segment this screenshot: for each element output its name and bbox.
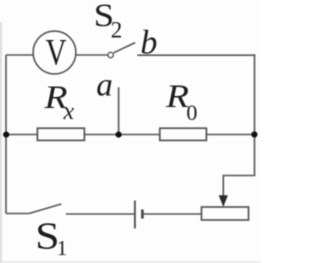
wire Rx to node a junction xyxy=(84,134,159,136)
switch S1 blade xyxy=(29,204,61,214)
voltmeter V circle xyxy=(33,31,76,74)
junction node a xyxy=(116,132,122,138)
wire bottom-left corner to switch S1 xyxy=(6,213,29,215)
svg-text:x: x xyxy=(63,99,75,125)
switch S2 pivot circle xyxy=(108,52,113,57)
switch S2 blade xyxy=(114,43,136,53)
svg-text:0: 0 xyxy=(186,100,197,125)
resistor R0 box xyxy=(160,128,207,140)
wire battery to rheostat xyxy=(142,213,201,215)
rheostat box xyxy=(202,207,249,220)
svg-text:2: 2 xyxy=(111,18,123,43)
wire left rail xyxy=(5,55,7,214)
junction node right xyxy=(251,131,257,137)
battery long plate xyxy=(134,201,136,229)
battery short plate xyxy=(141,210,144,219)
wire step to rheostat arrow xyxy=(223,176,255,197)
resistor Rx box xyxy=(37,128,84,140)
wire middle row left xyxy=(6,134,37,136)
svg-text:1: 1 xyxy=(57,236,68,260)
scan edge shading left xyxy=(0,22,2,263)
wire right rail xyxy=(254,54,256,175)
rheostat wiper arrowhead xyxy=(219,195,228,207)
svg-text:R: R xyxy=(165,79,189,115)
svg-text:a: a xyxy=(96,67,113,103)
wire top b to right rail xyxy=(137,54,255,56)
wire node a vertical stub xyxy=(118,87,120,134)
scan edge shading bottom xyxy=(0,261,261,263)
svg-text:V: V xyxy=(46,32,67,73)
wire S1 to battery xyxy=(66,213,135,215)
wire R0 to right rail xyxy=(206,134,254,136)
svg-text:b: b xyxy=(140,24,157,61)
wire voltmeter to switch S2 xyxy=(76,54,108,56)
junction node left xyxy=(3,132,9,138)
wire top-left to voltmeter xyxy=(6,54,34,56)
